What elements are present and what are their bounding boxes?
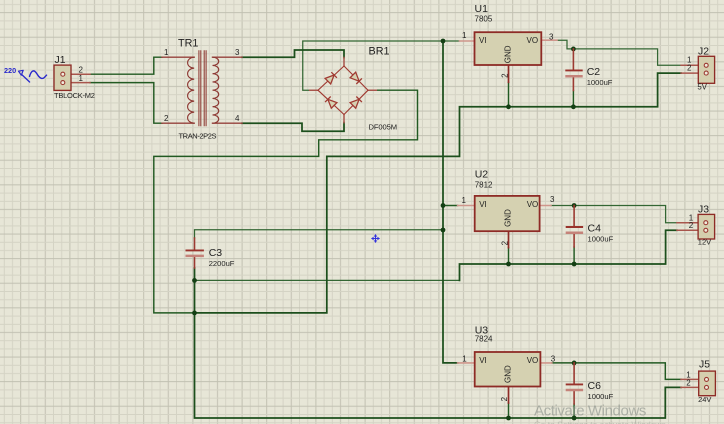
svg-text:U1: U1 [475,3,489,15]
svg-text:2200uF: 2200uF [209,259,235,268]
svg-text:C2: C2 [587,66,601,78]
svg-text:1000uF: 1000uF [588,235,614,244]
svg-text:2: 2 [164,114,169,123]
svg-text:2: 2 [687,63,692,72]
svg-text:7824: 7824 [475,334,493,343]
svg-text:C6: C6 [588,380,602,392]
svg-text:3: 3 [550,195,555,204]
svg-text:VO: VO [527,36,539,45]
svg-text:2: 2 [500,240,509,245]
svg-text:1: 1 [462,196,467,205]
svg-text:7805: 7805 [475,15,493,24]
svg-text:GND: GND [504,209,513,227]
svg-text:J1: J1 [55,55,66,66]
svg-text:2: 2 [689,221,694,230]
svg-text:TBLOCK-M2: TBLOCK-M2 [54,91,95,100]
svg-text:VI: VI [479,200,487,209]
svg-text:BR1: BR1 [369,46,390,58]
svg-text:24V: 24V [698,395,711,404]
svg-text:DF005M: DF005M [369,123,398,132]
svg-text:12V: 12V [698,238,711,247]
svg-text:3: 3 [549,32,554,41]
svg-text:C3: C3 [209,247,223,259]
svg-text:GND: GND [504,45,513,63]
svg-text:7812: 7812 [475,180,493,189]
svg-text:3: 3 [551,355,556,364]
svg-text:GND: GND [504,365,513,383]
svg-text:Go to Settings to activate Win: Go to Settings to activate Windows. [534,420,668,424]
svg-text:3: 3 [235,48,240,57]
svg-text:1000uF: 1000uF [588,392,614,401]
svg-text:TR1: TR1 [178,38,198,50]
svg-text:TRAN-2P2S: TRAN-2P2S [179,132,217,141]
svg-text:J3: J3 [698,205,709,216]
svg-text:2: 2 [500,73,509,78]
svg-text:1: 1 [462,31,467,40]
svg-text:C4: C4 [588,223,602,235]
svg-text:1: 1 [79,74,84,83]
svg-text:VO: VO [527,356,539,365]
svg-text:220: 220 [4,66,16,75]
svg-text:1: 1 [462,354,467,363]
svg-text:1: 1 [164,48,169,57]
svg-text:2: 2 [686,378,691,387]
svg-text:VI: VI [479,36,487,45]
svg-text:4: 4 [235,114,240,123]
svg-text:2: 2 [500,396,509,401]
svg-text:J5: J5 [699,360,710,371]
svg-text:U2: U2 [475,169,489,181]
svg-text:Activate Windows: Activate Windows [534,403,646,420]
svg-text:1000uF: 1000uF [587,78,613,87]
svg-text:VO: VO [527,200,539,209]
svg-text:VI: VI [479,356,487,365]
svg-text:5V: 5V [697,83,707,92]
svg-text:J2: J2 [698,47,709,58]
